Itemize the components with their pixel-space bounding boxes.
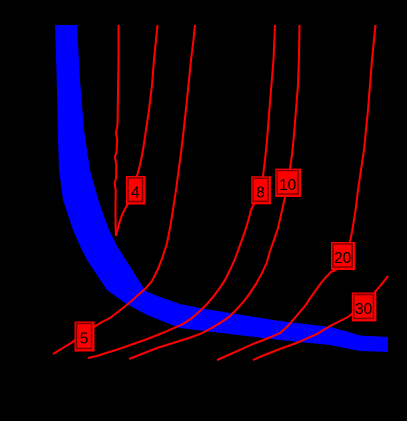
svg-text:8: 8 <box>256 184 265 201</box>
svg-text:20: 20 <box>334 250 352 267</box>
svg-text:30: 30 <box>355 301 373 318</box>
svg-text:4: 4 <box>131 184 140 201</box>
svg-text:5: 5 <box>80 331 89 348</box>
svg-text:10: 10 <box>279 177 297 194</box>
